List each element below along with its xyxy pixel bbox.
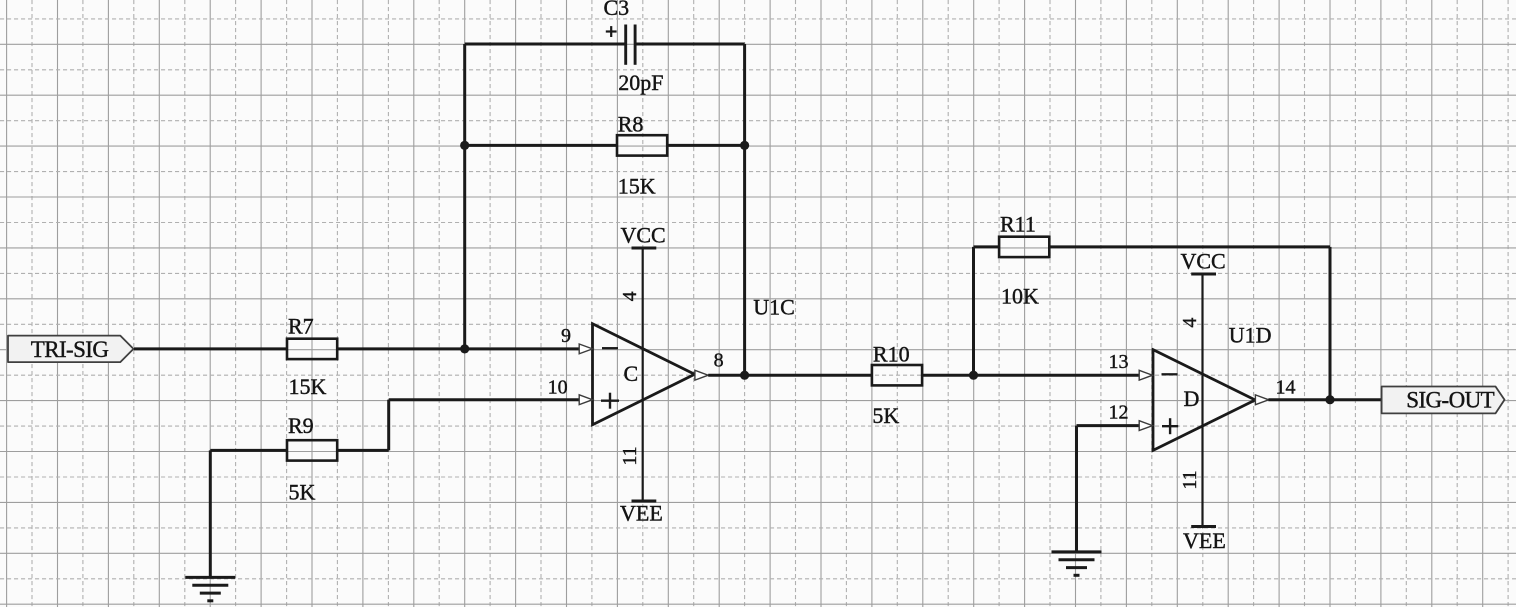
- C3 polarity plus: [606, 26, 617, 37]
- port TRI-SIG: [8, 336, 134, 363]
- wire feedback right vertical: [743, 44, 746, 375]
- junction output feedback: [1325, 395, 1334, 404]
- U1D pin 12 input arrow: [1139, 421, 1152, 431]
- ground symbol left: [185, 577, 235, 600]
- U1C pin 8 output arrow: [695, 370, 708, 380]
- power VCC U1D: [1181, 248, 1226, 274]
- wire to U1C pin 10: [389, 398, 580, 401]
- port SIG-OUT: [1382, 387, 1505, 414]
- wire to R11 left: [974, 245, 1000, 248]
- junction R8 right: [740, 141, 749, 150]
- resistor R7: [287, 339, 337, 359]
- svg-text:C3: C3: [604, 0, 630, 20]
- svg-text:20pF: 20pF: [618, 70, 663, 95]
- svg-text:R9: R9: [288, 413, 314, 438]
- svg-text:14: 14: [1276, 376, 1296, 398]
- svg-text:D: D: [1184, 386, 1200, 411]
- wire R11 feedback vertical: [1329, 247, 1332, 400]
- grid background (decorative): [6, 0, 8, 607]
- U1D plus sign: [1162, 418, 1178, 434]
- wire TRI-SIG to R7: [134, 347, 287, 350]
- resistor R10: [872, 365, 922, 385]
- wire R11 right: [1049, 245, 1330, 248]
- junction R11 tap: [969, 371, 978, 380]
- svg-text:15K: 15K: [289, 374, 327, 399]
- svg-text:11: 11: [1179, 470, 1201, 489]
- svg-text:VCC: VCC: [621, 222, 666, 247]
- svg-text:R8: R8: [618, 112, 644, 137]
- svg-text:13: 13: [1109, 351, 1129, 373]
- svg-text:C: C: [624, 361, 639, 386]
- wire R7 to U1C pin 9: [337, 347, 579, 350]
- svg-text:VCC: VCC: [1181, 248, 1226, 273]
- U1D pin 13 input arrow: [1139, 370, 1152, 380]
- wire R9 corner vertical: [387, 400, 390, 451]
- U1D pin 14 output arrow: [1255, 395, 1268, 405]
- svg-text:10K: 10K: [1001, 283, 1039, 308]
- svg-text:15K: 15K: [618, 174, 656, 199]
- wire U1C output to R10: [708, 374, 872, 377]
- capacitor C3: [626, 25, 635, 65]
- svg-text:TRI-SIG: TRI-SIG: [31, 337, 109, 362]
- svg-text:4: 4: [619, 291, 641, 301]
- U1C pin 10 input arrow: [579, 395, 592, 405]
- op-amp U1D triangle: [1153, 350, 1255, 451]
- wire R8 right: [668, 144, 745, 147]
- ground symbol right: [1052, 552, 1102, 575]
- wire top to C3 left: [465, 43, 625, 46]
- wire U1C VCC-VEE vertical: [642, 248, 644, 501]
- op-amp U1C triangle: [593, 324, 695, 425]
- svg-text:R11: R11: [1000, 212, 1036, 237]
- U1C pin 9 input arrow: [579, 344, 592, 354]
- wire U1D output to SIG-OUT: [1268, 398, 1381, 401]
- svg-text:4: 4: [1179, 318, 1201, 328]
- wire feedback left vertical: [463, 44, 466, 349]
- resistor R9: [287, 440, 337, 460]
- svg-text:SIG-OUT: SIG-OUT: [1406, 388, 1494, 413]
- svg-text:5K: 5K: [289, 480, 316, 505]
- svg-text:U1C: U1C: [753, 295, 795, 320]
- U1D minus sign: [1162, 373, 1178, 375]
- power VEE U1D: [1183, 527, 1226, 553]
- svg-text:R7: R7: [288, 313, 314, 338]
- svg-text:VEE: VEE: [620, 501, 663, 526]
- power VEE U1C: [620, 501, 663, 526]
- svg-text:9: 9: [561, 325, 571, 347]
- U1C plus sign: [601, 393, 619, 409]
- U1C minus sign: [602, 347, 618, 349]
- wire up to R11: [972, 247, 975, 375]
- wire ground branch to R9: [210, 449, 287, 452]
- svg-text:5K: 5K: [872, 403, 899, 428]
- junction R8 left: [460, 141, 469, 150]
- junction feedback at U1C output: [740, 371, 749, 380]
- power VCC U1C: [621, 222, 666, 248]
- svg-text:R10: R10: [873, 342, 910, 367]
- wire ground to U1D pin 12: [1077, 424, 1140, 427]
- wire R9 left down to ground: [209, 450, 212, 577]
- resistor R11: [999, 237, 1049, 257]
- svg-text:8: 8: [714, 349, 724, 371]
- wire pin12 down to ground: [1075, 426, 1078, 552]
- svg-text:11: 11: [619, 446, 641, 465]
- svg-text:10: 10: [548, 377, 568, 399]
- svg-text:U1D: U1D: [1229, 323, 1272, 348]
- svg-text:12: 12: [1109, 402, 1129, 424]
- wire R10 to U1D pin 13: [922, 374, 1139, 377]
- resistor R8: [617, 135, 667, 155]
- wire U1D VCC-VEE vertical: [1201, 274, 1203, 527]
- wire to R8 left: [465, 144, 617, 147]
- wire C3 right to top corner: [636, 43, 745, 46]
- junction node inverting input net: [460, 344, 469, 353]
- wire R9 right: [337, 449, 389, 452]
- svg-text:VEE: VEE: [1183, 528, 1226, 553]
